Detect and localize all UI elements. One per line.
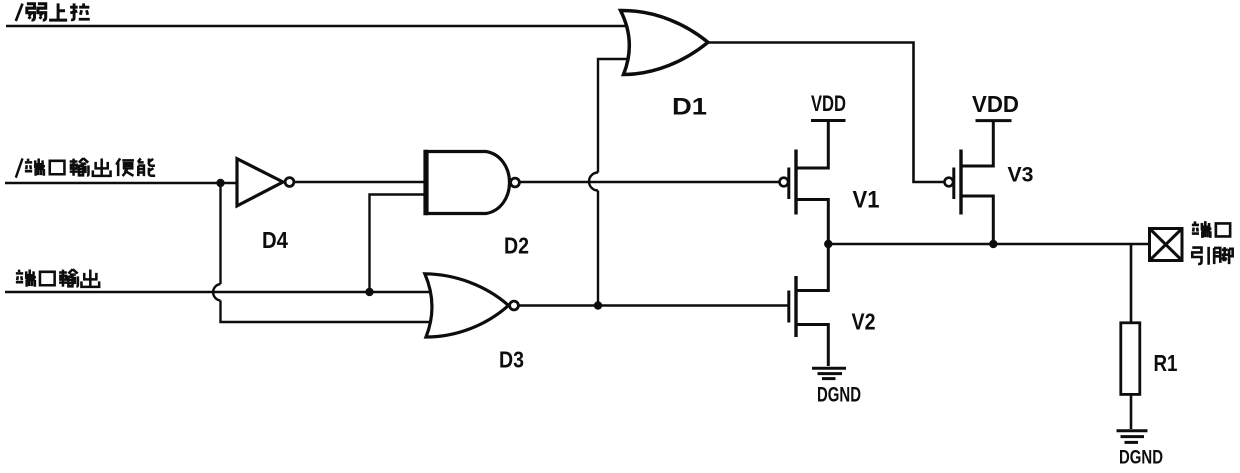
svg-text:D1: D1 xyxy=(672,94,707,121)
label port pin (Chinese: 端口 / 引脚) xyxy=(1192,221,1233,265)
V1 gate bar xyxy=(787,168,790,200)
wire /port-output-enable net xyxy=(5,182,237,184)
wire port-output net xyxy=(5,291,434,293)
V1 channel bar xyxy=(794,150,797,215)
wire enable junction down to hop xyxy=(219,183,221,284)
V2 channel bar xyxy=(794,276,797,337)
nor D3 output bubble xyxy=(510,301,519,310)
power VDD bar (V1) xyxy=(811,119,846,122)
wire output node to port pin xyxy=(828,243,1149,246)
V3 gate bubble xyxy=(945,178,954,187)
svg-text:D4: D4 xyxy=(262,227,288,253)
svg-text:DGND: DGND xyxy=(1119,448,1163,469)
V2 source lead to ground xyxy=(796,325,828,367)
svg-text:V1: V1 xyxy=(853,187,880,214)
nand D2 input bar xyxy=(423,150,428,215)
svg-text:VDD: VDD xyxy=(972,91,1019,117)
resistor R1 xyxy=(1121,323,1140,395)
label port-output (Chinese: 端口输出) xyxy=(16,269,99,287)
svg-text:D3: D3 xyxy=(499,347,524,373)
wire junction up then right to D2 lower input xyxy=(370,195,426,293)
wire /weak-pullup net to D1 top input xyxy=(6,25,634,28)
wire hop bottom down to corner then right to D3 lower input xyxy=(221,301,432,323)
V3 drain lead to VDD xyxy=(961,121,993,166)
svg-text:VDD: VDD xyxy=(811,91,846,116)
V3 gate bar xyxy=(952,168,955,200)
wire R1 to ground xyxy=(1130,394,1133,429)
port pin symbol xyxy=(1150,229,1183,261)
ground DGND (R1) xyxy=(1117,431,1148,443)
wire D4 output to D2 upper input xyxy=(294,181,425,183)
label /weak-pullup (Chinese: /弱上拉) xyxy=(16,3,90,21)
wire node down to R1 xyxy=(1130,244,1133,323)
wire hop top up then right to D1 lower input xyxy=(598,59,634,173)
wire hop over port-output line xyxy=(213,284,220,301)
nor D3 body xyxy=(425,274,509,337)
power VDD bar (V3) xyxy=(976,119,1012,122)
node junction V3 xyxy=(989,240,997,248)
wire D3 output to V2 gate xyxy=(519,304,788,306)
V1 gate bubble xyxy=(780,178,789,187)
svg-text:R1: R1 xyxy=(1154,350,1178,376)
nand D2 output bubble xyxy=(511,178,520,187)
wire junction up to hop xyxy=(597,191,599,306)
wire hop over D2 output line xyxy=(589,173,598,191)
inverter D4 output bubble xyxy=(285,178,294,187)
svg-text:V3: V3 xyxy=(1008,164,1034,187)
transistor V2 (NMOS) xyxy=(789,244,829,366)
V1 source lead to node xyxy=(796,200,828,245)
transistor V3 (PMOS) xyxy=(945,121,994,244)
wire D2 output to V1 gate xyxy=(520,181,780,183)
V2 gate bar xyxy=(787,291,790,323)
wire D1 output to V3 gate xyxy=(709,43,945,183)
transistor V1 (PMOS) xyxy=(780,121,829,245)
nand D2 body xyxy=(427,152,510,214)
V3 source lead to node xyxy=(961,196,993,244)
svg-text:D2: D2 xyxy=(504,233,529,259)
V2 drain lead to node xyxy=(796,244,828,291)
node junction on port-output line xyxy=(365,288,373,296)
inverter D4 xyxy=(237,159,283,206)
label /port-output-enable (Chinese: /端口输出使能) xyxy=(16,158,155,177)
svg-text:V2: V2 xyxy=(852,309,876,335)
node junction D3 output xyxy=(594,301,602,309)
node junction V1/V2 xyxy=(824,240,832,248)
ground DGND (V2) xyxy=(812,368,846,378)
svg-text:DGND: DGND xyxy=(817,384,861,407)
V1 drain lead to VDD xyxy=(796,121,828,169)
or-gate D1 xyxy=(621,10,709,74)
node junction on enable line xyxy=(216,179,224,187)
V3 channel bar xyxy=(959,150,962,215)
